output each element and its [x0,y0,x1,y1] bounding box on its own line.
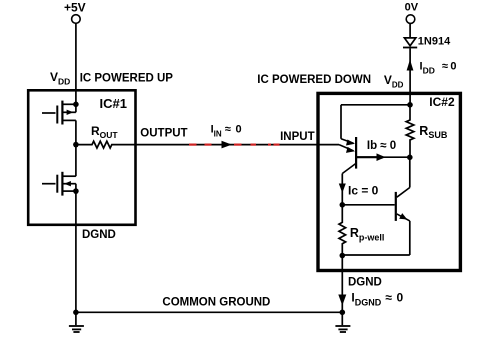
svg-text:IC#1: IC#1 [100,96,127,111]
svg-text:IC#2: IC#2 [429,95,455,109]
svg-text:COMMON GROUND: COMMON GROUND [162,296,270,308]
svg-text:Ic = 0: Ic = 0 [348,184,379,198]
svg-text:DGND: DGND [82,229,116,241]
svg-text:OUTPUT: OUTPUT [140,127,187,139]
svg-text:+5V: +5V [64,1,86,15]
svg-text:Ib ≈ 0: Ib ≈ 0 [367,140,396,152]
svg-text:IC POWERED UP: IC POWERED UP [80,73,174,85]
svg-text:0V: 0V [405,2,419,14]
svg-text:IC POWERED DOWN: IC POWERED DOWN [257,74,371,86]
svg-text:1N914: 1N914 [418,35,451,47]
svg-text:INPUT: INPUT [280,131,315,143]
svg-text:DGND: DGND [348,277,382,289]
